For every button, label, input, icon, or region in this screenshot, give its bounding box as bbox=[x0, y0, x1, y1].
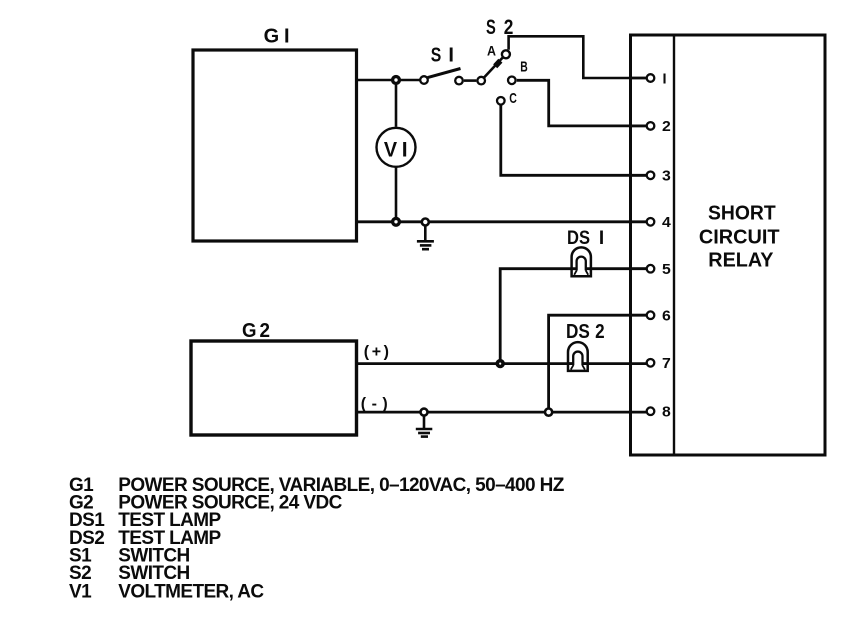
svg-text:CIRCUIT: CIRCUIT bbox=[699, 227, 780, 249]
svg-text:VOLTMETER, AC: VOLTMETER, AC bbox=[118, 581, 264, 602]
switch S2 contact B bbox=[508, 77, 516, 85]
wire G1 bottom output to relay pin 4 bbox=[357, 220, 647, 223]
svg-text:RELAY: RELAY bbox=[708, 249, 774, 271]
pin 7 terminal bbox=[647, 359, 655, 367]
wire S1 to S2 common bbox=[464, 79, 477, 82]
svg-text:I: I bbox=[663, 71, 667, 87]
switch S2 blade to position A bbox=[484, 58, 502, 78]
switch S1 left contact bbox=[420, 76, 428, 84]
label V1 bbox=[384, 138, 408, 161]
svg-text:4: 4 bbox=[662, 215, 671, 231]
pin 5 terminal bbox=[647, 265, 655, 273]
wire S2-B to relay pin 2 bbox=[517, 80, 647, 126]
svg-text:C: C bbox=[509, 90, 517, 107]
wire voltmeter top lead bbox=[395, 83, 398, 127]
wire G2 (+) bus to relay pin 7 bbox=[357, 362, 647, 365]
wire S2-A to relay pin 1 bbox=[509, 36, 647, 78]
svg-text:2: 2 bbox=[662, 119, 671, 135]
svg-text:B: B bbox=[520, 58, 528, 75]
svg-text:A: A bbox=[487, 44, 496, 59]
svg-text:I: I bbox=[402, 138, 408, 161]
power source G1 box bbox=[193, 50, 357, 241]
switch S2 contact C bbox=[497, 97, 505, 105]
short circuit relay box U1 bbox=[631, 35, 826, 455]
test lamp DS1 bbox=[572, 247, 591, 276]
label DS2 bbox=[566, 321, 605, 343]
wire G1 top output to S1 bbox=[357, 79, 421, 82]
svg-text:DS: DS bbox=[566, 321, 590, 343]
ground symbol 2 bbox=[416, 416, 433, 437]
test lamp DS2 bbox=[568, 342, 588, 371]
svg-text:(+): (+) bbox=[364, 344, 389, 361]
voltmeter V1 bbox=[377, 128, 416, 167]
pin 1 stub bbox=[631, 77, 647, 80]
switch S2 blade arrowhead bbox=[495, 61, 500, 67]
svg-text:2: 2 bbox=[595, 321, 605, 343]
svg-text:I: I bbox=[448, 44, 454, 66]
pin 3 stub bbox=[631, 174, 647, 177]
ground tap node bbox=[422, 219, 429, 226]
junction node pin6 wire on (-) bus bbox=[545, 409, 552, 416]
svg-text:V1: V1 bbox=[69, 581, 92, 602]
pin 6 terminal bbox=[647, 311, 655, 319]
svg-text:DS: DS bbox=[567, 228, 590, 249]
pin 3 terminal bbox=[647, 172, 655, 180]
junction node DS1 on (+) bus bbox=[497, 361, 503, 367]
svg-text:S: S bbox=[431, 44, 442, 66]
pin 5 stub bbox=[631, 267, 647, 270]
svg-text:V: V bbox=[384, 138, 397, 161]
pin 6 stub bbox=[631, 314, 647, 317]
switch S2 contact A bbox=[502, 50, 510, 58]
switch S1 blade bbox=[428, 69, 461, 78]
junction node voltmeter top tap bbox=[393, 77, 400, 84]
wire S2-C to relay pin 3 bbox=[501, 105, 647, 176]
wire voltmeter bottom lead bbox=[395, 168, 398, 218]
label DS1 bbox=[567, 228, 604, 249]
svg-text:G: G bbox=[264, 25, 280, 47]
relay terminal strip divider bbox=[673, 35, 675, 455]
svg-text:8: 8 bbox=[662, 405, 671, 421]
ground tap node 2 bbox=[421, 409, 428, 416]
switch S1 middle contact bbox=[455, 77, 463, 85]
svg-text:I: I bbox=[284, 25, 290, 47]
power source G2 box bbox=[191, 341, 357, 435]
ground symbol 1 bbox=[417, 226, 434, 250]
label SHORT CIRCUIT RELAY bbox=[699, 202, 780, 271]
junction node voltmeter bottom tap bbox=[393, 218, 400, 225]
wire relay pin 6 down to (-) bus bbox=[549, 315, 647, 412]
svg-text:7: 7 bbox=[662, 356, 671, 372]
wire G2 (-) bus to relay pin 8 bbox=[357, 411, 647, 414]
svg-text:SHORT: SHORT bbox=[708, 202, 776, 224]
svg-text:G: G bbox=[242, 320, 257, 342]
svg-text:S: S bbox=[486, 16, 496, 39]
label S2 bbox=[486, 16, 513, 39]
label G1 bbox=[264, 25, 290, 47]
wire relay pin 5 through DS1 down to (+) bus bbox=[500, 269, 646, 364]
svg-text:(-): (-) bbox=[361, 396, 388, 413]
svg-text:6: 6 bbox=[662, 309, 671, 325]
pin 4 terminal bbox=[647, 218, 655, 226]
switch S2 common contact bbox=[477, 77, 485, 85]
pin 2 terminal bbox=[647, 122, 655, 130]
pin 2 stub bbox=[631, 125, 647, 128]
svg-text:5: 5 bbox=[662, 262, 671, 278]
svg-text:3: 3 bbox=[662, 169, 671, 185]
svg-text:I: I bbox=[599, 228, 604, 249]
label S1 bbox=[431, 44, 454, 66]
pin 8 terminal bbox=[647, 407, 655, 415]
svg-text:2: 2 bbox=[260, 320, 271, 342]
label G2 bbox=[242, 320, 270, 342]
legend table bbox=[69, 475, 565, 602]
pin 1 terminal bbox=[647, 74, 655, 82]
